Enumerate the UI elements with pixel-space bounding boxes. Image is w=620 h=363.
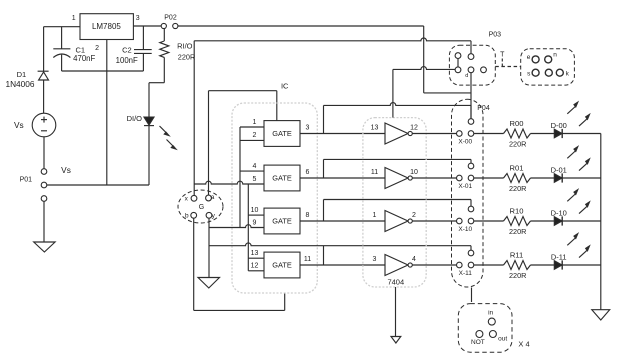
LED D-10 [554,217,562,226]
svg-text:4: 4 [412,256,416,263]
svg-text:10: 10 [251,207,259,214]
svg-text:a: a [211,194,215,201]
wire: gate4 output row [300,264,385,266]
inverter U2C (7404) [385,211,408,232]
wire: gate2 pin4 [240,170,264,172]
P04 pin right row4 [468,262,474,268]
svg-text:P03: P03 [489,31,502,38]
svg-text:n: n [553,51,557,58]
svg-text:P02: P02 [164,15,177,22]
wire: gate4 pin13 [248,257,264,259]
gate G2 [264,165,300,191]
svg-text:11: 11 [304,256,311,263]
svg-text:4: 4 [253,163,257,170]
LED arrows row2 [567,151,575,158]
svg-text:220R: 220R [178,53,195,62]
P03 pin c5 [481,67,487,73]
capacitor C2 lead top [142,26,144,50]
wire: resistor to LED row2 [531,177,555,179]
P04 pin left row4 [457,262,463,268]
wire: branch line row1 (hops 7404 vcc) [324,103,472,106]
capacitor C1 lead top [61,27,63,49]
resistor R00 220R [504,129,531,138]
wire: inverter out row1 [412,133,456,135]
svg-text:GATE: GATE [272,261,292,270]
svg-text:R00: R00 [510,119,524,128]
svg-text:b: b [185,213,189,220]
resistor R10 220R [504,217,531,226]
wire: ground rail under C1/C2 [62,70,144,72]
svg-text:220R: 220R [509,140,526,149]
wire: P01 pin3 to ground [43,201,45,242]
wire: gate1 pin2 [240,139,264,141]
svg-text:P04: P04 [477,105,490,112]
svg-text:GATE: GATE [272,217,292,226]
svg-text:1: 1 [72,15,76,22]
P04 pin left row3 [457,218,463,224]
svg-text:3: 3 [306,124,310,131]
wire: gate3 pin10 [248,214,264,216]
svg-text:R01: R01 [510,164,524,173]
wire: branch up row 4 [323,246,325,265]
legend NOT box (dashed) [458,304,512,353]
IC block outline [232,103,317,293]
node y [206,212,212,218]
wire: left column vertical to D1 [43,27,45,71]
svg-text:X-10: X-10 [458,226,472,233]
svg-text:1: 1 [253,119,257,126]
wire: inverter out row3 [412,220,456,222]
svg-text:1N4006: 1N4006 [5,79,34,89]
svg-text:GATE: GATE [272,174,292,183]
capacitor C1 lead bottom [61,55,63,71]
legend pin out [489,331,496,338]
wire: down into P03 pin c2 [470,41,472,54]
connector P01 pin 2 [41,182,47,188]
P03 pin c2 [468,54,474,60]
LED arrows [160,126,168,134]
svg-text:6: 6 [306,169,310,176]
wire: LED to right rail row4 [562,264,601,266]
LED D-01 [554,174,562,183]
svg-text:8: 8 [306,212,310,219]
wire: gate3 pin9 from y net (hops busB) [209,225,264,228]
wire: LED to right rail row1 [562,133,601,135]
svg-text:T: T [500,52,505,59]
pin s [532,69,539,76]
P04 select pin row2 [468,163,474,169]
svg-text:D-11: D-11 [551,253,567,262]
svg-text:LM7805: LM7805 [92,22,121,31]
IC 7404 outline [363,118,426,287]
ground (7404) [391,337,401,344]
svg-text:NOT: NOT [471,339,485,346]
svg-text:7404: 7404 [387,277,404,286]
resistor R11 220R [504,261,531,270]
svg-text:e: e [527,54,531,61]
pin e [532,56,539,63]
node a [206,195,212,201]
svg-text:X 4: X 4 [518,339,529,348]
legend pin in [488,318,495,325]
svg-text:RI/O: RI/O [177,41,193,50]
svg-text:C2: C2 [122,45,132,54]
wire: +5V horizontal to P04 column [424,92,471,94]
capacitor C2 lead bottom [142,53,144,71]
wire: x line vertical (from c2-net corner down to x pin) [193,41,195,196]
ground (G) [198,278,220,289]
regulator U1 LM7805 [80,14,133,40]
pin n [545,56,552,63]
ground (right rail) [592,310,610,320]
LED D-00 [554,129,562,138]
wire: link c1-c3 [457,59,459,67]
wire: gate4 pin12 [248,270,264,272]
P03 pin c3 [455,67,461,73]
P03 pin c4 [468,67,474,73]
wire: branch line row2 [324,158,472,160]
svg-text:R10: R10 [510,207,524,216]
wire: +5V vertical right side [423,26,425,93]
svg-text:2: 2 [95,45,99,52]
P04 pin right row3 [468,218,474,224]
resistor R01 220R [504,174,531,183]
P04 pin left row1 [457,131,463,137]
capacitor C1 [53,48,70,50]
wire: X out to resistor row4 [474,264,504,266]
svg-text:Vs: Vs [61,165,71,175]
svg-text:470nF: 470nF [73,54,95,63]
wire: net to P03 c2 (long horizontal, hops over +5V) [194,38,471,41]
legend pin NOT [476,331,483,338]
P03 pin c1 [455,53,461,59]
capacitor C2 [134,49,152,51]
resistor RI/O 220R [163,29,165,41]
svg-text:10: 10 [410,169,418,176]
connector mate e/n/s/k (dashed) [521,49,575,85]
wire: regulator pin1 to left column [44,26,80,28]
voltage source Vs [32,113,56,137]
wire: branch down to P04 select pin row3 [470,200,472,207]
svg-text:Vs: Vs [14,120,24,130]
wire: resistor to LED row4 [531,264,555,266]
wire: b line down [193,218,195,310]
wire: X out to resistor row2 [474,177,504,179]
LED arrows row3 [567,194,575,201]
wire: P03 c3 horizontal (hops +5V) [393,67,455,70]
svg-text:GATE: GATE [272,129,292,138]
dashed link T [495,66,520,68]
wire: branch down to P04 select pin row1 [470,105,472,118]
wire: a to gate1 top [209,90,277,92]
svg-text:1: 1 [373,212,377,219]
wire: LED to right rail row3 [562,220,601,222]
svg-text:100nF: 100nF [116,56,138,65]
wire: y line to ground [208,218,210,277]
wire: gate1 output row [300,133,385,135]
svg-text:D-10: D-10 [551,209,567,218]
wire: branch up row 2 [323,159,325,178]
wire: LED to right rail row2 [562,177,601,179]
wire: regulator pin3 to P02 [133,25,161,27]
svg-text:D1: D1 [17,70,27,79]
P04 pin right row1 [468,131,474,137]
svg-text:3: 3 [373,256,377,263]
P04 select pin row4 [468,250,474,256]
connector P03 (dashed) [449,45,495,85]
node b [191,212,197,218]
svg-text:220R: 220R [509,184,526,193]
P04 select pin row1 [468,119,474,125]
wire: b to IC bottom [194,309,285,311]
svg-text:3: 3 [136,15,140,22]
svg-text:G: G [199,204,204,211]
wire: gate1 pin1 [240,126,264,128]
ground (P01) [34,242,55,252]
wire: P04 to legend link [471,288,473,303]
wire: branch down to P04 select pin row2 [470,159,472,163]
svg-text:D-00: D-00 [551,121,567,130]
pin k [556,69,563,76]
svg-text:in: in [488,310,493,317]
wire: 7404 GND down [395,287,397,337]
svg-text:d: d [465,73,468,79]
diode D1 1N4006 [38,70,49,72]
wire: jog to LED DI/O [149,82,164,84]
svg-text:out: out [498,335,507,342]
P04 select pin row3 [468,206,474,212]
wire: 7404 VCC from P03 c3 wire [392,69,394,117]
wire: inverter out row2 [412,177,456,179]
wire: branch up row 1 [323,105,325,133]
connector G (dashed ellipse) [178,190,223,223]
svg-text:2: 2 [253,132,257,139]
wire: c4 down to +5V/P04 column [470,73,472,119]
svg-text:12: 12 [251,263,259,270]
inverter U2A (7404) [385,123,408,144]
connector P02 pin 1 [161,23,166,28]
svg-text:X-00: X-00 [458,139,472,146]
node x [191,195,197,201]
svg-text:P01: P01 [20,177,33,184]
P04 pin left row2 [457,175,463,181]
wire: regulator pin2 down [106,40,108,186]
wire: X out to resistor row1 [474,133,504,135]
svg-text:220R: 220R [509,227,526,236]
wire: branch down to P04 select pin row4 [470,246,472,251]
wire: branch line row4 from y-net (hops busB) [209,243,471,246]
LED D-11 [554,261,562,270]
gate G3 [264,208,300,234]
wire: gate3 output row [300,220,385,222]
P04 pin right row2 [468,175,474,181]
wire: bus A (ties 1,2,4 down to pin9 net) [239,127,241,228]
connector P01 pin 1 [41,169,47,175]
wire: inverter out row4 [412,264,456,266]
svg-text:D-01: D-01 [551,166,567,175]
wire: right rail [600,134,602,310]
svg-text:11: 11 [371,169,378,176]
wire: X out to resistor row3 [474,220,504,222]
wire: bus B (x net: pins 5,10,13,12) [247,184,249,271]
connector P04 (dashed capsule) [452,99,484,287]
svg-text:R11: R11 [510,251,523,260]
wire: resistor to LED row3 [531,220,555,222]
wire: gate2 output row [300,177,385,179]
inverter U2B (7404) [385,168,408,189]
wire: source to P01 [43,137,45,169]
connector P02 pin 2 [173,23,178,28]
wire: gate2 pin5 from x (hops a-line and busA) [194,181,264,184]
svg-text:9: 9 [253,219,257,226]
wire: resistor to LED row1 [531,133,555,135]
svg-text:12: 12 [410,124,418,131]
wire: Vs net from P01 to LED column [47,184,149,186]
inverter U2D (7404) [385,255,408,276]
LED arrows row4 [567,238,575,245]
svg-text:X-01: X-01 [458,183,472,190]
wire: a line vertical [208,91,210,195]
svg-text:13: 13 [251,250,259,257]
svg-text:IC: IC [281,81,289,90]
wire: branch up row 3 [323,200,325,222]
svg-text:X-11: X-11 [459,270,473,277]
svg-text:5: 5 [253,176,257,183]
connector P01 pin 3 [41,196,47,202]
LED arrows row1 [567,107,575,114]
gate G4 [264,252,300,278]
gate G1 [264,121,300,147]
svg-text:2: 2 [412,212,416,219]
pin (middle bottom) [545,69,552,76]
svg-text:220R: 220R [509,271,526,280]
svg-text:DI/O: DI/O [127,114,143,123]
svg-text:13: 13 [371,124,379,131]
wire: branch line row3 [324,199,472,201]
LED DI/O [144,117,154,125]
wire: LED down to Vs net [148,126,150,185]
wire: P02 to +5V corner [178,25,424,27]
